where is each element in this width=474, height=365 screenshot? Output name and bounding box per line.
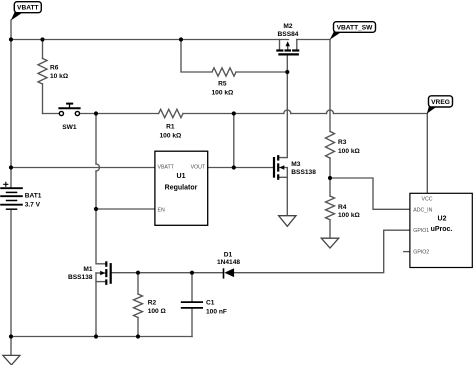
svg-text:VBATT: VBATT: [158, 165, 175, 171]
svg-text:R6: R6: [50, 65, 59, 72]
svg-text:GPIO2: GPIO2: [413, 250, 429, 256]
svg-text:VBATT_SW: VBATT_SW: [337, 25, 374, 32]
svg-text:BSS138: BSS138: [68, 274, 93, 281]
svg-text:VBATT: VBATT: [17, 5, 39, 12]
svg-text:VCC: VCC: [422, 196, 433, 202]
svg-text:100 Ω: 100 Ω: [148, 308, 167, 315]
svg-text:100 kΩ: 100 kΩ: [212, 90, 235, 97]
svg-text:R2: R2: [148, 299, 157, 306]
svg-text:M1: M1: [83, 266, 92, 273]
svg-text:EN: EN: [158, 207, 165, 213]
svg-text:R1: R1: [166, 124, 175, 131]
svg-text:100 nF: 100 nF: [206, 308, 227, 315]
svg-text:100 kΩ: 100 kΩ: [338, 148, 361, 155]
svg-text:1N4148: 1N4148: [217, 259, 240, 266]
svg-text:M3: M3: [291, 161, 300, 168]
svg-text:M2: M2: [283, 23, 292, 30]
svg-text:D1: D1: [224, 252, 233, 259]
svg-text:GPIO1: GPIO1: [413, 228, 429, 234]
svg-text:VOUT: VOUT: [191, 165, 206, 171]
svg-text:VREG: VREG: [431, 99, 450, 106]
svg-text:10 kΩ: 10 kΩ: [50, 73, 69, 80]
svg-text:ADC_IN: ADC_IN: [413, 207, 432, 213]
svg-text:R5: R5: [218, 80, 227, 87]
svg-text:R3: R3: [338, 139, 347, 146]
svg-text:SW1: SW1: [62, 124, 77, 131]
svg-text:100 kΩ: 100 kΩ: [338, 212, 361, 219]
svg-text:BAT1: BAT1: [25, 192, 42, 199]
svg-text:R4: R4: [338, 204, 347, 211]
svg-text:3.7 V: 3.7 V: [25, 201, 41, 208]
svg-text:Regulator: Regulator: [165, 184, 198, 191]
svg-text:U2: U2: [438, 215, 447, 222]
svg-text:C1: C1: [206, 299, 215, 306]
svg-text:100 kΩ: 100 kΩ: [160, 133, 183, 140]
svg-text:uProc.: uProc.: [431, 226, 453, 233]
svg-text:BSS84: BSS84: [278, 31, 299, 38]
svg-text:U1: U1: [177, 173, 186, 180]
svg-text:BSS138: BSS138: [291, 169, 316, 176]
